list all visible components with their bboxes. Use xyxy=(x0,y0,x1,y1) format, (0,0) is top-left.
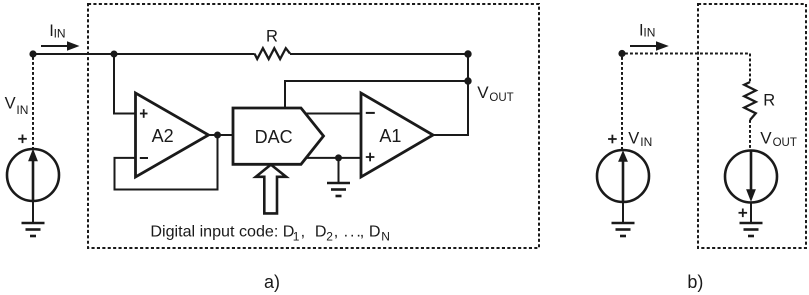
wire: dotted node to resistor (b) xyxy=(625,54,750,83)
wire: DAC to A1 plus input xyxy=(306,157,362,159)
wire: node down to A2 + input xyxy=(114,54,136,114)
label VOUT (a) xyxy=(477,83,513,104)
minus sign A2 xyxy=(140,157,148,159)
ground: under VIN source (a) xyxy=(22,223,45,236)
svg-text:a): a) xyxy=(264,272,280,292)
label IIN (b) xyxy=(639,21,655,39)
dashed box b xyxy=(698,4,806,248)
wire: source to ground (a) xyxy=(32,201,34,223)
voltage source VIN (b) xyxy=(597,150,649,202)
voltage source VIN (a) xyxy=(7,149,59,201)
svg-text:DAC: DAC xyxy=(255,127,293,147)
wire: dashed from input node down to source (a) xyxy=(32,57,34,149)
op-amp A1 xyxy=(361,93,433,177)
svg-text:,: , xyxy=(301,222,305,240)
node: Vout junction xyxy=(464,77,471,84)
svg-text:R: R xyxy=(266,28,278,46)
current arrow IIN (a) xyxy=(41,41,80,50)
wire: junction down to ground xyxy=(338,158,340,183)
wire: main input wire to resistor xyxy=(33,53,255,55)
wire: dotted resistor to VOUT source (b) xyxy=(749,120,751,150)
ground: under VIN source (b) xyxy=(612,223,635,236)
node: ground tap junction xyxy=(335,154,342,161)
plus sign of source VOUT (b) xyxy=(739,209,748,218)
wire: DAC to A1 minus input xyxy=(306,113,362,115)
plus sign A1 xyxy=(366,153,375,162)
svg-text:.: . xyxy=(350,222,354,240)
wire: resistor to Vout node xyxy=(290,53,468,55)
svg-text:A1: A1 xyxy=(379,126,401,146)
op-amp A2 xyxy=(136,93,209,177)
svg-text:N: N xyxy=(381,229,390,243)
dashed box a xyxy=(88,4,539,248)
svg-text:IN: IN xyxy=(640,135,652,149)
label VIN (a) xyxy=(5,95,29,118)
wire: A2 output to DAC xyxy=(209,134,234,136)
plus sign of source VIN (a) xyxy=(18,135,27,144)
svg-text:b): b) xyxy=(687,272,703,292)
svg-text:V: V xyxy=(477,83,489,102)
svg-text:IN: IN xyxy=(54,26,66,40)
wire: DAC top to Vout feedback xyxy=(285,81,468,108)
wire: A1 output up to Vout node xyxy=(433,54,468,135)
svg-text:2: 2 xyxy=(326,229,333,243)
plus sign A2 xyxy=(140,109,148,118)
wire: VOUT source to ground (b) xyxy=(750,203,752,224)
svg-text:R: R xyxy=(763,92,775,110)
resistor R (a) xyxy=(255,48,291,59)
node: top right Vout node xyxy=(464,50,471,57)
node: input node xyxy=(29,50,36,57)
label digital input code xyxy=(150,222,389,243)
svg-text:A2: A2 xyxy=(152,126,174,146)
svg-text:IN: IN xyxy=(643,26,655,40)
current arrow IIN (b) xyxy=(630,41,669,50)
svg-text:OUT: OUT xyxy=(773,137,797,149)
ground: under VOUT source (b) xyxy=(740,223,763,236)
svg-text:D: D xyxy=(369,222,381,240)
svg-text:,: , xyxy=(360,222,364,240)
svg-text:V: V xyxy=(5,95,16,113)
resistor R (b) xyxy=(744,82,756,120)
svg-text:,: , xyxy=(334,222,338,240)
svg-text:V: V xyxy=(760,128,772,147)
node: junction to A2 + input xyxy=(111,51,118,58)
digital input block arrow xyxy=(256,165,286,214)
voltage source VOUT (b) xyxy=(725,151,777,203)
label IIN (a) xyxy=(49,22,65,40)
wire: A2 feedback loop xyxy=(115,135,218,190)
label VOUT (b) xyxy=(760,128,797,149)
node: input node (b) xyxy=(618,50,625,57)
ground: near A1 xyxy=(327,183,350,196)
svg-text:1: 1 xyxy=(293,229,300,243)
svg-text:OUT: OUT xyxy=(489,92,513,104)
svg-text:.: . xyxy=(344,222,348,240)
node: A2 output xyxy=(214,132,221,139)
wire: source to ground (b) xyxy=(622,202,624,223)
svg-text:IN: IN xyxy=(16,103,28,117)
plus sign of source VIN (b) xyxy=(608,135,617,144)
DAC block xyxy=(233,108,324,164)
minus sign A1 xyxy=(366,112,375,114)
svg-text:D: D xyxy=(315,222,327,240)
svg-text:Digital input code: D: Digital input code: D xyxy=(150,222,294,240)
wire: dotted node down to VIN source (b) xyxy=(621,57,623,149)
label VIN (b) xyxy=(628,129,652,149)
svg-text:V: V xyxy=(628,129,639,147)
